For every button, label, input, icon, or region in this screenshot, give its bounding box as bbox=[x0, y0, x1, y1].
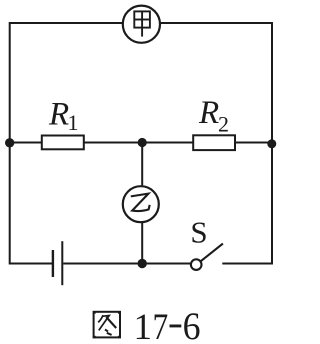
wire: top-right segment bbox=[161, 22, 273, 24]
wire: bottom-left to battery bbox=[10, 263, 52, 265]
wire: right border bbox=[271, 22, 273, 265]
caption text 17-6 bbox=[134, 305, 201, 344]
node: center junction bbox=[138, 138, 147, 147]
svg-text:R: R bbox=[198, 95, 219, 131]
caption glyph 图: corner serifs bbox=[93, 311, 121, 338]
resistor R2 bbox=[193, 135, 235, 150]
glyph 乙 inside middle meter bbox=[131, 194, 150, 211]
wire: middle row left of R1 bbox=[10, 142, 43, 144]
caption glyph 图: inner 冬 component bbox=[98, 315, 103, 322]
wire: middle row R1 to R2 bbox=[83, 142, 194, 144]
node: left junction bbox=[5, 138, 14, 147]
label R1 bbox=[48, 97, 79, 136]
label R2 bbox=[198, 95, 229, 137]
wire: branch from center node down to meter B bbox=[141, 143, 143, 186]
svg-text:1: 1 bbox=[68, 110, 79, 135]
switch S: pivot circle bbox=[191, 259, 202, 270]
node: bottom junction bbox=[138, 259, 147, 268]
battery B1: long plate bbox=[61, 241, 63, 285]
wire: branch from meter B down to bottom node bbox=[141, 223, 143, 264]
svg-text:2: 2 bbox=[218, 112, 229, 137]
wire: middle row right of R2 bbox=[234, 142, 272, 144]
glyph 甲 inside top meter bbox=[134, 11, 150, 36]
wire: left border bbox=[9, 22, 11, 265]
svg-text:1: 1 bbox=[134, 307, 153, 344]
svg-text:S: S bbox=[190, 215, 207, 250]
switch S: lever arm bbox=[201, 244, 223, 262]
wire: battery to switch bbox=[63, 263, 191, 265]
svg-text:7: 7 bbox=[153, 307, 169, 344]
svg-text:6: 6 bbox=[183, 305, 201, 344]
battery B1: short plate bbox=[52, 250, 54, 277]
caption glyph 图: outer box bbox=[94, 312, 120, 338]
wire: top-left segment bbox=[10, 22, 123, 24]
ammeter (meter 甲) circle U1 bbox=[123, 6, 160, 43]
node: right junction bbox=[267, 139, 276, 148]
svg-text:R: R bbox=[48, 97, 69, 133]
voltmeter (meter 乙) circle U2 bbox=[123, 186, 159, 222]
resistor R1 bbox=[42, 136, 84, 150]
wire: switch to bottom-right corner bbox=[222, 263, 272, 265]
